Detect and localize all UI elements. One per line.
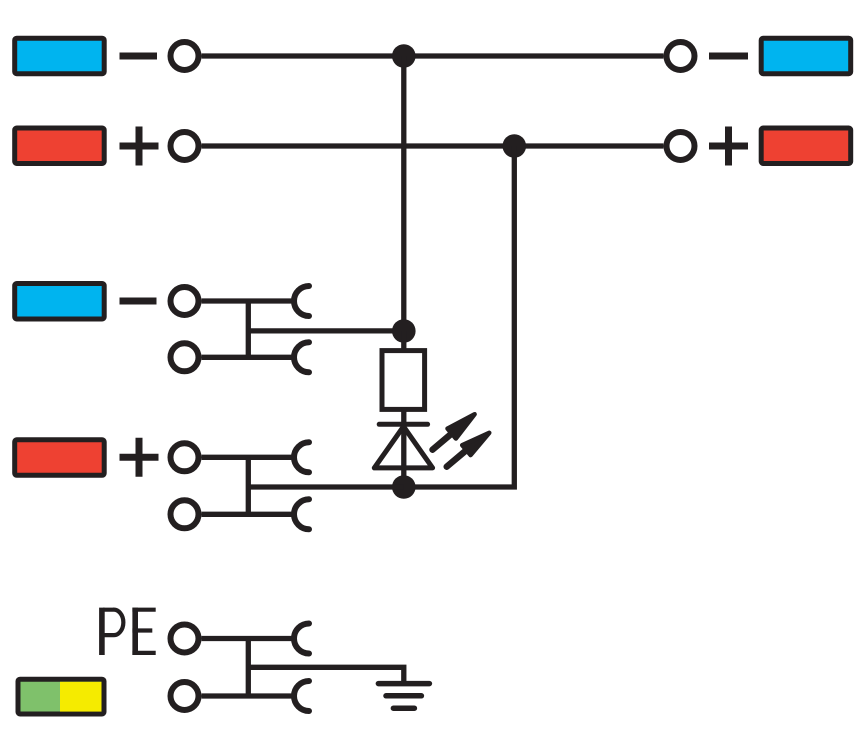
- terminal marker blue (row 3, sensor minus): [15, 284, 105, 320]
- plus sign left row 2: [120, 127, 159, 166]
- spring clamp contact row 3 lower: [294, 342, 309, 372]
- terminal circle row 3 upper: [171, 287, 199, 315]
- resistor R1: [382, 351, 425, 410]
- terminal circle row 4 upper: [171, 443, 199, 471]
- LED light arrow 1: [433, 414, 475, 450]
- spring clamp contact PE lower: [294, 681, 309, 711]
- terminal marker blue left (row 1, minus rail): [15, 38, 105, 73]
- spring clamp contact row 4 upper: [294, 442, 309, 472]
- wire vertical drop from minus rail to LED branch: [401, 56, 406, 331]
- wire row 3 lower to clamp: [202, 355, 295, 360]
- minus sign row 3: [120, 298, 157, 305]
- spring clamp contact row 4 lower: [294, 499, 309, 529]
- terminal circle row 2 right: [667, 132, 695, 160]
- spring clamp contact row 3 upper: [294, 286, 309, 316]
- terminal circle PE lower: [171, 682, 199, 710]
- junction dot D (LED cathode node): [392, 475, 416, 499]
- junction dot C (LED branch node): [392, 319, 416, 343]
- wire resistor to LED and through LED to node: [401, 407, 406, 487]
- terminal circle row 2 left: [171, 132, 199, 160]
- terminal circle row 1 left: [171, 42, 199, 70]
- wire fork branch row 4 to LED cathode node: [248, 484, 403, 489]
- wire minus rail (row 1 horizontal): [202, 53, 664, 58]
- plus sign row 4: [120, 438, 159, 477]
- wire row 4 lower to clamp: [202, 512, 295, 517]
- wire fork branch row 3 to LED anode node: [248, 328, 403, 333]
- earth ground symbol: [378, 684, 429, 709]
- fork vertical row 4: [246, 457, 251, 514]
- junction dot B (plus rail, x=514): [503, 134, 527, 158]
- terminal marker red right (row 2, plus rail): [761, 128, 851, 164]
- wire row 4 upper to clamp: [202, 455, 295, 460]
- terminal circle row 3 lower: [171, 343, 199, 371]
- wire PE upper to clamp: [202, 636, 295, 641]
- wire junction C to resistor: [401, 331, 406, 352]
- terminal marker blue right (row 1, minus rail): [761, 38, 851, 73]
- wire vertical drop from plus rail down and left to LED cathode node: [404, 146, 515, 487]
- junction dot A (minus rail, x=404): [392, 44, 416, 68]
- plus sign right row 2: [709, 127, 748, 166]
- terminal circle row 4 lower: [171, 500, 199, 528]
- minus sign left row 1: [120, 53, 158, 60]
- LED D1 cathode bar: [379, 422, 427, 427]
- terminal marker red left (row 2, plus rail): [15, 128, 105, 164]
- spring clamp contact PE upper: [294, 624, 309, 654]
- fork vertical PE: [246, 639, 251, 697]
- terminal circle row 1 right: [667, 42, 695, 70]
- terminal circle PE upper: [171, 625, 199, 653]
- minus sign right row 1: [709, 53, 748, 60]
- terminal marker green-yellow (PE): [18, 679, 104, 714]
- LED D1 triangle: [374, 427, 432, 468]
- wire plus rail (row 2 horizontal): [202, 143, 664, 148]
- wire PE lower to clamp: [202, 693, 295, 698]
- wire row 3 upper to clamp: [202, 298, 295, 303]
- fork vertical row 3: [246, 301, 251, 357]
- terminal marker red (row 4, sensor plus): [15, 440, 105, 476]
- PE label: [99, 608, 156, 655]
- LED light arrow 2: [447, 433, 490, 467]
- wire fork branch PE to earth: [248, 667, 403, 683]
